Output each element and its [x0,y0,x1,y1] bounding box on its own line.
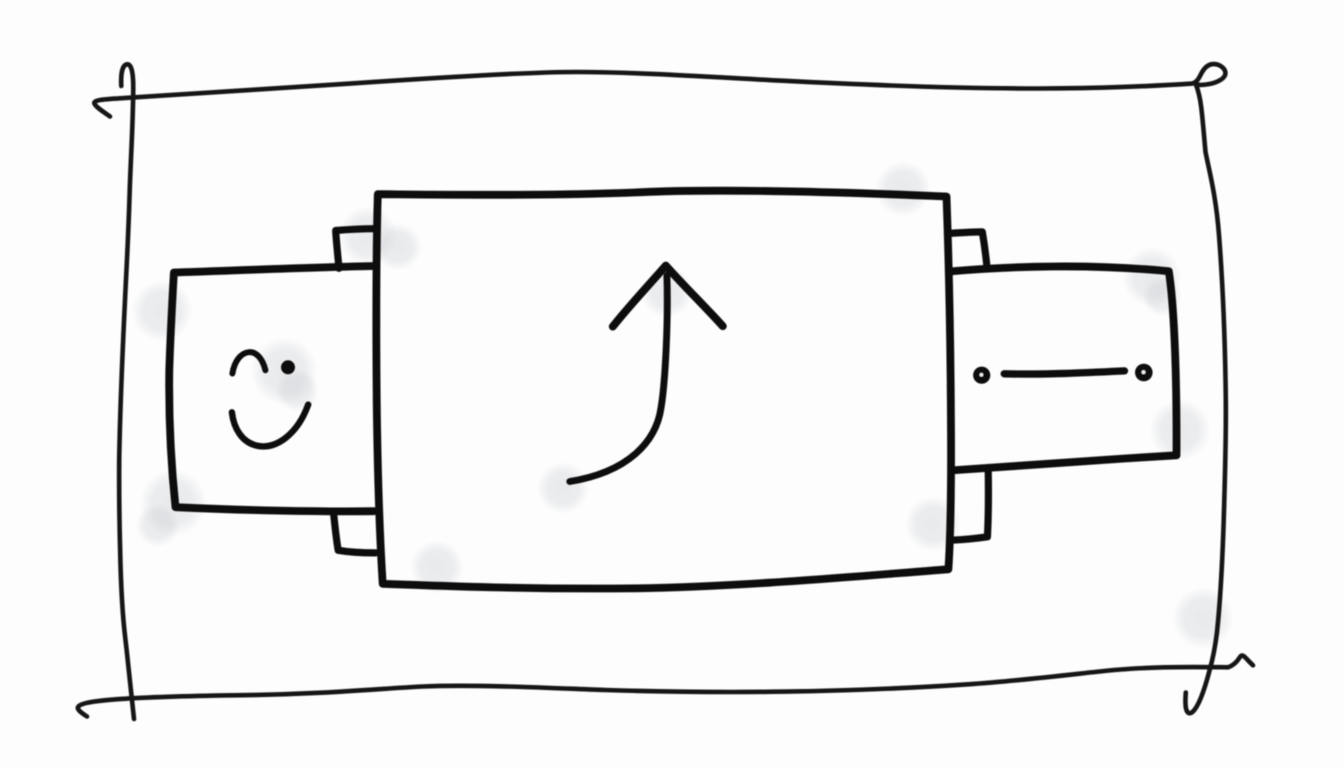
arrow head [613,266,723,327]
smiley right eye dot [281,360,295,374]
connector left dot [973,367,990,384]
tab top-left [336,229,375,269]
connector right dot [1135,364,1153,382]
connector link line [1004,371,1124,374]
input box (left) [169,266,375,511]
tab bottom-right [952,469,989,540]
tab bottom-left [334,513,376,553]
tab top-right [950,232,987,267]
smiley wink eye [232,352,265,373]
process box (center) [376,191,951,589]
smiley smile [232,405,308,447]
arrow shaft [570,276,667,482]
output box (right) [951,266,1177,470]
